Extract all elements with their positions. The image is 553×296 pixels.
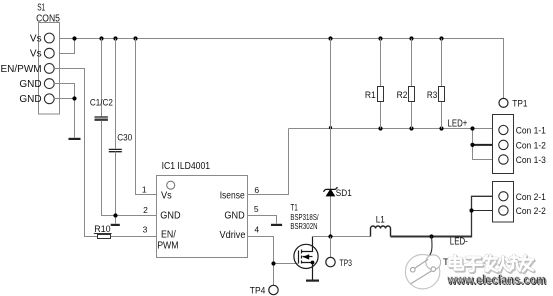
svg-text:4: 4 <box>254 225 259 235</box>
svg-text:Con 1-3: Con 1-3 <box>516 155 546 166</box>
svg-text:TP4: TP4 <box>250 286 266 296</box>
svg-text:C1/C2: C1/C2 <box>90 98 113 109</box>
svg-text:GND: GND <box>224 211 244 222</box>
svg-text:R1: R1 <box>365 90 376 101</box>
svg-text:www.elecfans.com: www.elecfans.com <box>447 273 546 287</box>
svg-text:CON5: CON5 <box>36 13 60 24</box>
svg-text:EN/: EN/ <box>161 230 176 241</box>
svg-text:IC1 ILD4001: IC1 ILD4001 <box>162 161 211 172</box>
wire Con2-2 stub <box>472 210 499 212</box>
IC pin1 indicator circle <box>167 181 175 189</box>
svg-text:S1: S1 <box>37 2 45 13</box>
wire TP3 stub <box>330 237 332 258</box>
svg-text:PWM: PWM <box>157 240 178 251</box>
svg-text:Vs: Vs <box>30 33 42 44</box>
svg-text:Con 2-2: Con 2-2 <box>516 206 546 217</box>
test point TP1 <box>499 98 508 107</box>
wire Vs pin2 jog <box>54 39 75 54</box>
junction Con2-2 dot <box>469 208 473 212</box>
connector S1 box <box>39 23 60 115</box>
wire GND pin4 <box>54 84 75 138</box>
wire Vdrive to gate and TP4 <box>248 237 298 286</box>
junction TP2 dot <box>429 234 433 238</box>
svg-text:BSP318S/: BSP318S/ <box>290 213 319 222</box>
junction Vs rail dots <box>72 36 443 40</box>
svg-text:C30: C30 <box>117 133 132 144</box>
test point TP4 <box>269 285 278 294</box>
transistor Q1/T1 MOSFET <box>294 237 318 280</box>
svg-text:T1: T1 <box>290 203 297 214</box>
watermark logo circle <box>405 255 440 289</box>
junction SD1/rail dot <box>328 234 332 238</box>
op-amp/IC U1 ILD4001 box <box>157 176 248 258</box>
junction LED+ dots <box>378 126 474 147</box>
svg-text:GND: GND <box>19 94 41 105</box>
connector Con2 box <box>493 182 514 223</box>
junction C30/GND dot <box>113 213 117 217</box>
svg-text:GND: GND <box>160 211 180 222</box>
wire LED+ rail <box>289 128 499 130</box>
svg-text:5: 5 <box>254 204 259 214</box>
wire Con1-2 stub <box>473 144 499 146</box>
svg-text:GND: GND <box>19 79 41 90</box>
wire Isense to LED+ rail <box>248 129 289 195</box>
junction GND pins dot <box>72 96 76 100</box>
svg-text:EN/PWM: EN/PWM <box>0 64 41 75</box>
svg-text:Con 1-1: Con 1-1 <box>516 126 546 137</box>
wire Vs to IC pin1 <box>136 39 157 195</box>
svg-text:R2: R2 <box>397 90 408 101</box>
connector Con2 pin circles <box>499 192 508 216</box>
svg-text:Con 2-1: Con 2-1 <box>516 192 546 203</box>
watermark chinese text 电子发烧友 <box>450 256 534 272</box>
svg-text:Isense: Isense <box>220 190 245 201</box>
wire C30 bottom to GND net <box>115 152 117 224</box>
svg-text:L1: L1 <box>376 215 385 226</box>
svg-text:Vs: Vs <box>30 49 42 60</box>
junction gate/TP4 dot <box>271 261 275 265</box>
resistor R1 <box>365 39 384 129</box>
wire GND pin5 <box>54 98 75 100</box>
svg-text:3: 3 <box>143 225 148 235</box>
connector Con1 pin circles <box>499 125 508 164</box>
junction SD1/LED+ small blob <box>329 126 332 129</box>
svg-text:Vdrive: Vdrive <box>220 230 246 241</box>
wire IC GND pin5 stub <box>248 216 277 224</box>
svg-text:LED+: LED+ <box>448 118 468 129</box>
svg-text:Vs: Vs <box>161 190 172 201</box>
connector S1 pin circles <box>44 33 54 104</box>
svg-text:BSR302N: BSR302N <box>290 222 317 231</box>
svg-text:TP3: TP3 <box>339 258 352 269</box>
wire switch rail to L1 <box>313 236 371 238</box>
connector Con1 box <box>493 115 514 174</box>
svg-text:2: 2 <box>143 205 148 215</box>
test point TP3 <box>326 257 335 266</box>
capacitor C30 <box>109 39 132 152</box>
svg-text:1: 1 <box>142 185 147 195</box>
wire Vs top rail <box>54 39 504 99</box>
inductor L1 <box>371 215 391 237</box>
wire LED- rail <box>391 236 472 238</box>
wire TP2 curve <box>429 237 432 257</box>
resistor R3 <box>427 39 445 129</box>
wire EN/PWM to R10 <box>54 69 157 237</box>
resistor R2 <box>397 39 415 129</box>
wire LED- up to Con2 <box>472 196 499 237</box>
svg-text:LED-: LED- <box>450 236 468 247</box>
svg-text:6: 6 <box>254 185 259 195</box>
ground bar MOSFET source <box>306 280 319 282</box>
wire C1/C2 to IC GND <box>102 121 157 216</box>
capacitor C1/C2 <box>90 39 113 121</box>
resistor R10 <box>94 224 112 239</box>
wire Con1 vertical <box>473 129 499 160</box>
ground bar connector <box>69 138 81 140</box>
svg-text:R3: R3 <box>427 90 437 101</box>
ground bar IC pin5 <box>271 224 282 226</box>
svg-text:Con 1-2: Con 1-2 <box>516 140 546 151</box>
svg-text:TP1: TP1 <box>512 99 527 110</box>
diode SD1 (schottky) <box>323 39 351 237</box>
ground bar C30 <box>111 224 120 226</box>
svg-text:SD1: SD1 <box>336 188 352 199</box>
